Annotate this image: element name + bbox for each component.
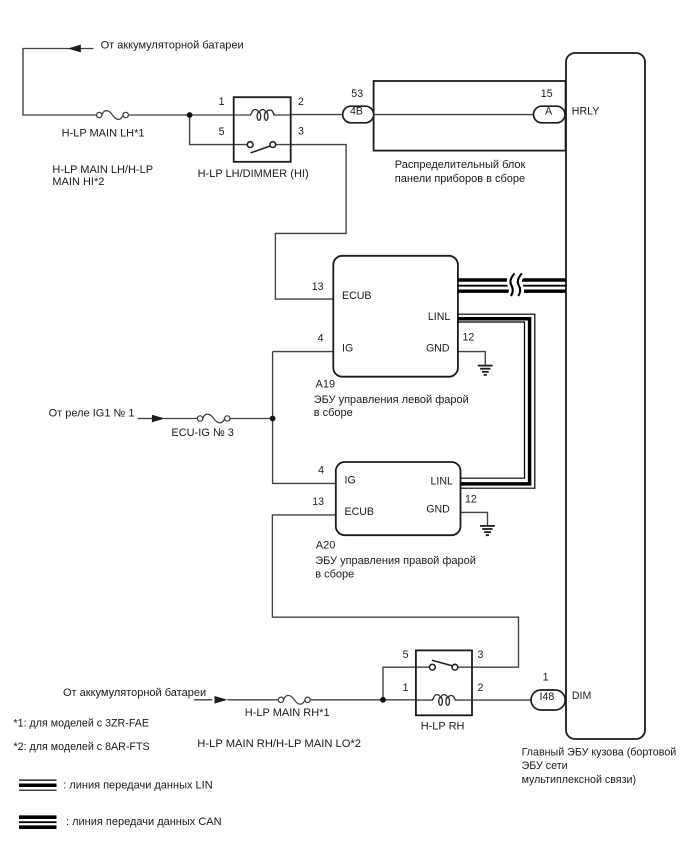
svg-text:мультиплексной связи): мультиплексной связи) <box>522 774 636 786</box>
svg-text:От аккумуляторной батареи: От аккумуляторной батареи <box>63 687 206 699</box>
svg-text:12: 12 <box>463 332 475 344</box>
svg-text:в сборе: в сборе <box>315 569 354 581</box>
svg-text:Главный ЭБУ кузова (бортовой: Главный ЭБУ кузова (бортовой <box>522 747 677 759</box>
svg-text:3: 3 <box>478 649 484 661</box>
svg-text:5: 5 <box>219 126 225 138</box>
svg-text:2: 2 <box>298 96 304 108</box>
svg-text:13: 13 <box>312 281 324 293</box>
svg-text:ЭБУ управления правой фарой: ЭБУ управления правой фарой <box>315 555 476 567</box>
svg-text:1: 1 <box>543 671 549 683</box>
svg-text:H-LP MAIN LH/H-LP: H-LP MAIN LH/H-LP <box>52 164 153 176</box>
svg-text:ЭБУ сети: ЭБУ сети <box>522 760 568 772</box>
svg-text:4: 4 <box>318 333 324 345</box>
svg-text:*1: для моделей с 3ZR-FAE: *1: для моделей с 3ZR-FAE <box>14 718 150 730</box>
svg-text:A19: A19 <box>316 378 336 390</box>
svg-text:*2: для моделей с 8AR-FTS: *2: для моделей с 8AR-FTS <box>14 741 150 753</box>
svg-text:панели приборов в сборе: панели приборов в сборе <box>395 173 525 185</box>
svg-text:3: 3 <box>298 126 304 138</box>
svg-text:53: 53 <box>351 88 363 100</box>
svg-text:GND: GND <box>426 504 450 516</box>
svg-text:A: A <box>545 106 553 118</box>
svg-text:LINL: LINL <box>428 311 450 323</box>
svg-text:IG: IG <box>342 343 353 355</box>
svg-text:A20: A20 <box>316 540 336 552</box>
svg-text:H-LP MAIN RH*1: H-LP MAIN RH*1 <box>245 707 330 719</box>
svg-text:ECU-IG № 3: ECU-IG № 3 <box>171 427 234 439</box>
svg-text:5: 5 <box>403 649 409 661</box>
svg-text:LINL: LINL <box>431 476 453 488</box>
svg-text:12: 12 <box>465 494 477 506</box>
svg-text:ECUB: ECUB <box>345 506 374 518</box>
svg-text:IG: IG <box>345 474 356 486</box>
svg-text:I48: I48 <box>540 691 555 703</box>
svg-text:4B: 4B <box>350 106 363 118</box>
svg-text:GND: GND <box>426 342 450 354</box>
svg-text:4: 4 <box>318 464 324 476</box>
svg-text:: линия передачи данных CAN: : линия передачи данных CAN <box>66 816 222 828</box>
svg-text:H-LP RH: H-LP RH <box>421 720 465 732</box>
svg-text:От реле IG1 № 1: От реле IG1 № 1 <box>49 408 135 420</box>
svg-text:в сборе: в сборе <box>314 407 353 419</box>
svg-text:15: 15 <box>541 88 553 100</box>
svg-text:1: 1 <box>403 682 409 694</box>
svg-text:: линия передачи данных LIN: : линия передачи данных LIN <box>63 780 213 792</box>
svg-text:От аккумуляторной батареи: От аккумуляторной батареи <box>101 39 244 51</box>
svg-text:1: 1 <box>219 96 225 108</box>
svg-text:Распределительный блок: Распределительный блок <box>395 159 526 171</box>
svg-text:H-LP LH/DIMMER (HI): H-LP LH/DIMMER (HI) <box>198 168 309 180</box>
svg-text:HRLY: HRLY <box>572 106 599 118</box>
svg-text:13: 13 <box>312 496 324 508</box>
svg-text:2: 2 <box>478 682 484 694</box>
svg-text:ECUB: ECUB <box>342 290 371 302</box>
svg-text:H-LP MAIN LH*1: H-LP MAIN LH*1 <box>62 127 145 139</box>
svg-text:ЭБУ управления левой фарой: ЭБУ управления левой фарой <box>314 394 469 406</box>
svg-text:H-LP MAIN RH/H-LP MAIN LO*2: H-LP MAIN RH/H-LP MAIN LO*2 <box>197 738 361 750</box>
svg-text:DIM: DIM <box>572 690 591 702</box>
svg-text:MAIN HI*2: MAIN HI*2 <box>52 176 104 188</box>
